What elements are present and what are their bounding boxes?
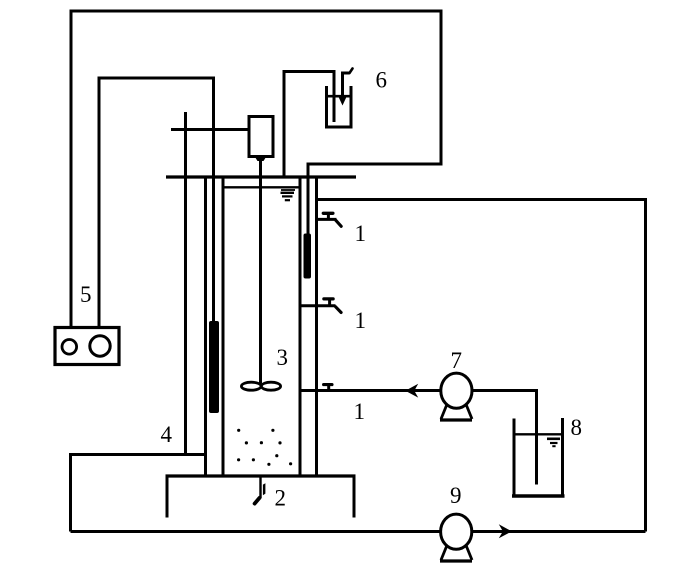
flow arrow into reactor (405, 384, 418, 398)
motor collar (255, 157, 266, 161)
clamp bar (171, 128, 250, 131)
liquid surface line (225, 186, 299, 188)
svg-text:7: 7 (451, 348, 463, 373)
drain valve 2 (259, 477, 261, 498)
svg-text:3: 3 (277, 345, 289, 370)
svg-text:2: 2 (275, 486, 287, 511)
wire outer loop to right heater rod (71, 11, 441, 327)
pump 9 stand (440, 544, 472, 561)
valve 1 upper pipe (317, 218, 337, 221)
svg-text:1: 1 (355, 221, 367, 246)
bottle 6 outline (327, 86, 352, 127)
svg-text:4: 4 (161, 422, 173, 447)
svg-text:6: 6 (376, 68, 388, 93)
impeller (241, 382, 280, 390)
inner vessel right wall (299, 179, 302, 475)
base pedestal (166, 474, 356, 477)
pump 9 (441, 514, 472, 549)
gas tube to bottle 6 (284, 72, 334, 177)
motor (249, 117, 273, 157)
sensor rod right (304, 234, 312, 279)
bottom circulation wire (71, 530, 646, 533)
bottle 6 arrow (339, 98, 346, 106)
right circulation wire (317, 200, 646, 532)
bottle 6 vent tube (343, 73, 350, 101)
svg-text:1: 1 (355, 308, 367, 333)
svg-text:5: 5 (80, 282, 92, 307)
heater rod left (209, 321, 219, 413)
drain 2 plug (263, 483, 266, 495)
liquid level marks (281, 189, 295, 191)
controller 5 box (55, 328, 119, 365)
wire inner loop to left heater rod (99, 78, 214, 327)
bottle 6 level (328, 95, 350, 98)
top plate lid (166, 175, 356, 178)
stand rod (184, 112, 187, 456)
valve 1 lower (327, 386, 330, 391)
svg-text:8: 8 (571, 415, 583, 440)
jacket outlet wire (71, 455, 207, 532)
tank 8 (513, 419, 516, 498)
stirrer shaft (259, 160, 262, 384)
outer jacket left wall (204, 179, 207, 475)
tank 8 level marks (547, 437, 560, 440)
flow arrow after pump 9 (499, 524, 512, 538)
svg-text:1: 1 (354, 399, 366, 424)
pump 7 (441, 373, 472, 408)
svg-text:9: 9 (450, 483, 462, 508)
pump 7 stand (440, 403, 472, 420)
bubbles (237, 429, 292, 466)
feed pipe from tank 8 (299, 391, 537, 485)
valve 1 middle pipe (299, 304, 336, 307)
inner vessel left wall (222, 179, 225, 475)
outer jacket right wall (315, 179, 318, 475)
